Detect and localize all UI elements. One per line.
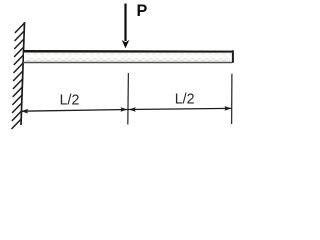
right extension line <box>231 74 233 124</box>
beam bottom edge <box>22 62 232 64</box>
label L/2 right <box>175 92 195 108</box>
wall hatching <box>12 23 25 129</box>
label L/2 left <box>60 93 80 109</box>
beam interior shading <box>24 53 232 62</box>
mid extension line <box>127 73 130 125</box>
dimension arrow right of mid line (points left) <box>129 107 136 112</box>
svg-text:L/2: L/2 <box>60 93 80 109</box>
svg-text:L/2: L/2 <box>175 92 195 108</box>
load arrow P head <box>122 40 130 48</box>
dimension arrow at right end (points right) <box>225 106 232 111</box>
fixed support wall line <box>21 22 25 125</box>
beam right edge <box>232 50 234 63</box>
beam top edge <box>23 50 233 53</box>
dimension arrow at wall (points left) <box>21 109 28 114</box>
dimension line left segment <box>21 110 128 112</box>
label P <box>137 2 148 20</box>
svg-text:P: P <box>137 2 148 20</box>
load arrow P shaft <box>124 4 126 42</box>
dimension arrow left of mid line (points right) <box>121 107 128 112</box>
dimension line right segment <box>128 108 231 109</box>
